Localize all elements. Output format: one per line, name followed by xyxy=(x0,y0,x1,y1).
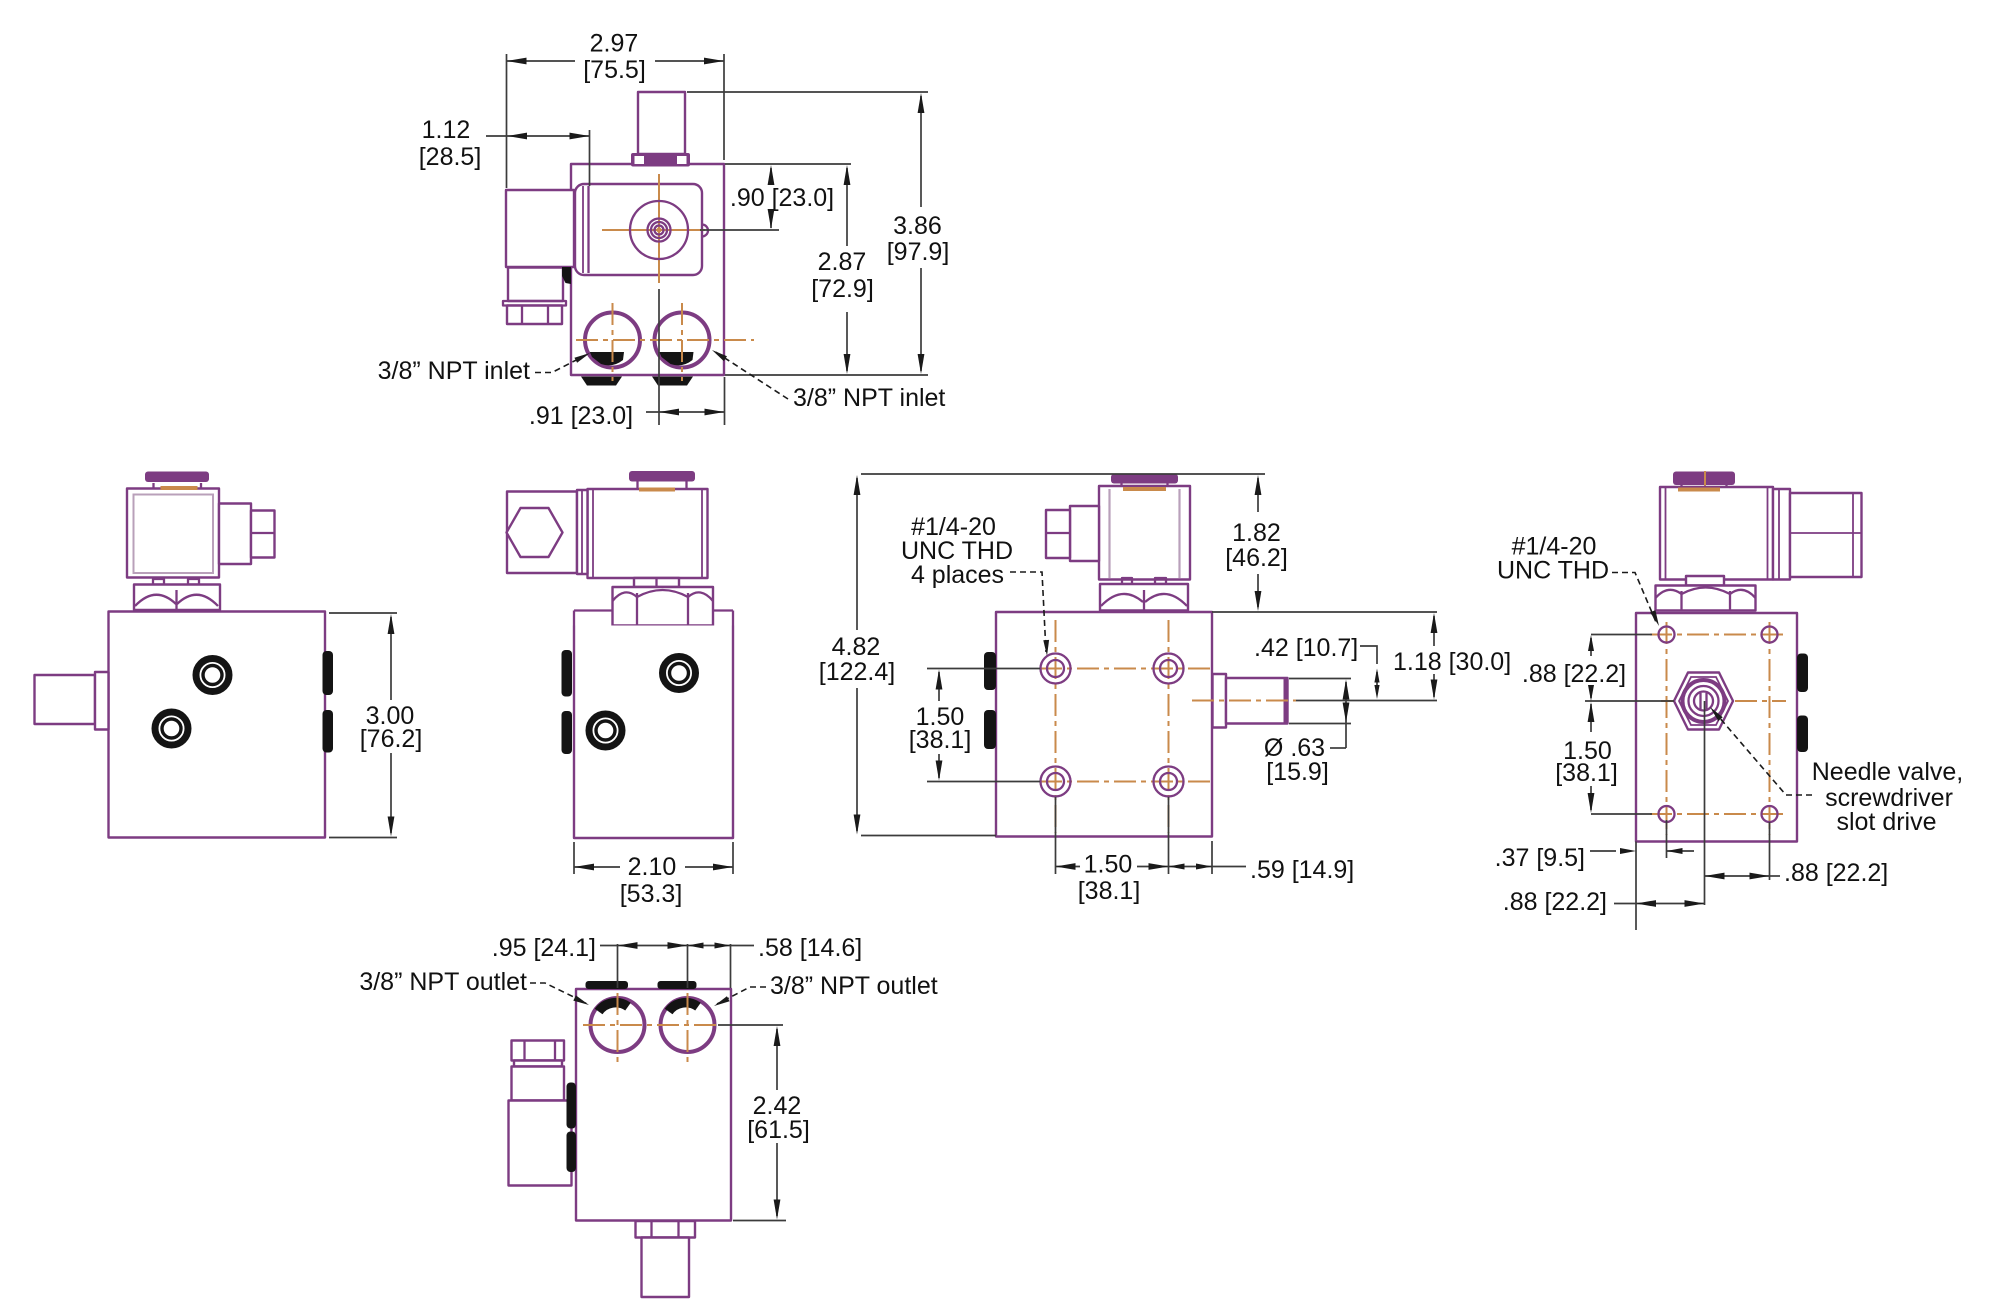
dimension 3.00 [76.2] xyxy=(329,613,422,838)
hole centerline middle (needle) xyxy=(1661,700,1786,702)
hex gland xyxy=(507,508,563,557)
dimension .95 [24.1] xyxy=(492,934,688,988)
needle valve barrel xyxy=(1226,678,1288,724)
left side view xyxy=(35,472,334,838)
top view: valve body seen from top xyxy=(503,92,754,386)
coil body xyxy=(588,489,708,578)
svg-text:3.86: 3.86 xyxy=(893,212,942,240)
thread crest right above body xyxy=(658,981,697,989)
coil cap xyxy=(629,471,695,482)
mounting tab upper xyxy=(567,1083,577,1129)
body outline xyxy=(576,989,731,1221)
dimension .58 [14.6] xyxy=(688,934,863,988)
svg-text:[28.5]: [28.5] xyxy=(419,143,482,171)
coil left edge band xyxy=(582,186,584,273)
svg-text:3/8” NPT outlet: 3/8” NPT outlet xyxy=(770,972,938,1000)
thread segment right xyxy=(659,352,693,365)
coil body xyxy=(1660,487,1773,580)
lower port ring xyxy=(155,712,188,745)
label #1/4-20 UNC THD xyxy=(1497,533,1659,627)
svg-text:[75.5]: [75.5] xyxy=(583,56,646,84)
right side view xyxy=(1636,471,1862,842)
hole bottom-right xyxy=(1762,806,1778,822)
label #1/4-20 UNC THD 4 places xyxy=(901,513,1049,656)
mounting tab upper xyxy=(1797,654,1808,693)
dimension 1.18 [30.0] xyxy=(1212,612,1511,701)
black wedge at connector/body joint xyxy=(562,267,571,284)
dimension .91 [23.0] xyxy=(529,289,725,430)
svg-text:[72.9]: [72.9] xyxy=(811,275,874,303)
label 3/8 NPT outlet left xyxy=(359,968,589,1005)
mounting tab lower xyxy=(984,710,996,749)
needle valve collar xyxy=(1213,674,1227,728)
body outline xyxy=(109,612,326,838)
dimension .88 [22.2] upper xyxy=(1522,635,1674,702)
inlet centerline horizontal xyxy=(576,339,754,341)
mounting tab lower xyxy=(562,711,573,754)
DIN connector side xyxy=(219,504,251,565)
dimension dia .63 [15.9] xyxy=(1264,679,1351,787)
solenoid stem xyxy=(642,1238,690,1298)
coil nut xyxy=(1656,586,1756,611)
coil nut xyxy=(1122,578,1132,584)
DIN gland body xyxy=(512,1067,565,1101)
DIN connector xyxy=(1070,506,1099,561)
label 3/8 NPT inlet right xyxy=(712,350,945,412)
body outline xyxy=(996,612,1212,837)
dimension 3.86 [97.9] xyxy=(687,92,949,375)
stem nut xyxy=(631,153,690,167)
hole centerline vertical left xyxy=(1666,622,1668,835)
mounting hole bottom-right xyxy=(1154,767,1184,797)
svg-text:[15.9]: [15.9] xyxy=(1266,758,1329,786)
svg-text:1.50: 1.50 xyxy=(1084,851,1133,879)
needle valve hex xyxy=(1674,673,1733,730)
mounting tab lower xyxy=(1797,716,1808,753)
svg-text:.58 [14.6]: .58 [14.6] xyxy=(758,934,862,962)
label 3/8 NPT outlet right xyxy=(714,972,938,1006)
svg-text:2.87: 2.87 xyxy=(818,248,867,276)
hole centerline bottom xyxy=(1040,781,1212,783)
needle valve centerline xyxy=(1192,700,1296,702)
mounting tab lower xyxy=(567,1132,577,1173)
outlet circle right xyxy=(661,998,715,1052)
dimension 2.97 [75.5] xyxy=(507,30,725,189)
stem between coil and nut xyxy=(634,578,679,587)
svg-text:.59 [14.9]: .59 [14.9] xyxy=(1250,856,1354,884)
DIN gland flange xyxy=(514,1061,562,1067)
svg-text:UNC THD: UNC THD xyxy=(1497,557,1609,585)
svg-text:slot drive: slot drive xyxy=(1836,808,1936,836)
svg-text:4 places: 4 places xyxy=(911,561,1004,589)
svg-text:4.82: 4.82 xyxy=(832,633,881,661)
svg-text:1.82: 1.82 xyxy=(1232,519,1281,547)
svg-text:[122.4]: [122.4] xyxy=(819,658,895,686)
solenoid center rings xyxy=(630,201,688,259)
hole top-right xyxy=(1762,627,1778,643)
label 3/8 NPT inlet left xyxy=(378,353,590,385)
hole centerline top xyxy=(1040,668,1212,670)
coil cap xyxy=(145,472,209,483)
inlet centerline vertical left xyxy=(612,303,614,381)
DIN interface band xyxy=(577,490,588,574)
svg-text:[38.1]: [38.1] xyxy=(1078,877,1141,905)
dimension .59 [14.9] xyxy=(1169,841,1355,884)
body outline xyxy=(1636,613,1797,842)
inlet centerline vertical right xyxy=(681,303,683,381)
outlet centerline vertical right xyxy=(687,993,689,1063)
gland flange xyxy=(503,301,566,306)
dimension .88 [22.2] bottom-left xyxy=(1503,701,1705,916)
coil nut xyxy=(613,587,714,626)
dimension .42 [10.7] xyxy=(1254,634,1380,699)
outlet centerline horizontal xyxy=(583,1024,720,1026)
solenoid center crosshair xyxy=(602,229,705,231)
dimension .88 [22.2] bottom-right xyxy=(1705,822,1889,887)
coil centerline xyxy=(1704,471,1706,608)
coil top (rounded square) xyxy=(575,184,702,275)
dimension 2.10 [53.3] xyxy=(574,842,733,908)
dimension 4.82 [122.4] xyxy=(819,474,1265,836)
svg-text:[53.3]: [53.3] xyxy=(620,880,683,908)
hole centerline vertical left xyxy=(1055,620,1057,833)
svg-text:2.10: 2.10 xyxy=(628,853,677,881)
svg-text:[97.9]: [97.9] xyxy=(887,238,950,266)
svg-text:.88 [22.2]: .88 [22.2] xyxy=(1503,888,1607,916)
body outline xyxy=(571,164,724,375)
mounting hole top-left xyxy=(1041,654,1071,684)
mounting tab upper xyxy=(323,651,334,695)
DIN interface band xyxy=(1773,489,1790,580)
hole centerline bottom xyxy=(1650,813,1786,815)
upper port ring xyxy=(663,657,696,690)
thread crest left above body xyxy=(586,981,629,989)
svg-text:.42 [10.7]: .42 [10.7] xyxy=(1254,634,1358,662)
svg-text:[38.1]: [38.1] xyxy=(1555,759,1618,787)
DIN gland nut xyxy=(512,1041,565,1061)
DIN connector (top view) xyxy=(506,190,574,267)
thread segment left xyxy=(599,1003,628,1012)
outlet circle left xyxy=(591,998,645,1052)
svg-text:[46.2]: [46.2] xyxy=(1225,544,1288,572)
nub on coil right xyxy=(702,225,708,237)
hole bottom-left xyxy=(1659,806,1675,822)
hole centerline vertical right xyxy=(1769,622,1771,835)
upper port ring xyxy=(196,659,229,692)
coil body xyxy=(127,489,219,578)
mounting hole top-right xyxy=(1154,654,1184,684)
dimension 2.42 [61.5] xyxy=(718,1025,810,1221)
nut stubs xyxy=(153,579,164,585)
hole centerline top xyxy=(1650,634,1786,636)
svg-text:.88 [22.2]: .88 [22.2] xyxy=(1784,859,1888,887)
DIN connector xyxy=(1790,493,1862,577)
lower port ring xyxy=(589,714,622,747)
gland nut xyxy=(507,306,562,325)
svg-text:[76.2]: [76.2] xyxy=(360,725,423,753)
svg-text:3/8” NPT outlet: 3/8” NPT outlet xyxy=(359,968,527,996)
body outline xyxy=(574,626,733,839)
inlet circle left xyxy=(585,313,640,368)
mounting tab upper xyxy=(984,652,996,690)
hole top-left xyxy=(1659,627,1675,643)
inlet circle right xyxy=(655,313,710,368)
cap legs xyxy=(1680,484,1682,488)
dimension 2.87 [72.9] xyxy=(811,165,874,374)
svg-text:Needle valve,: Needle valve, xyxy=(1812,758,1963,786)
dimension 1.12 [28.5] xyxy=(419,116,590,186)
dimension 1.50 [38.1] xyxy=(1555,702,1652,814)
DIN connector rear with hex gland xyxy=(507,492,577,574)
thread segment left xyxy=(590,352,624,365)
coil cap xyxy=(1673,472,1735,486)
label needle valve xyxy=(1710,707,1963,836)
thread segment right xyxy=(669,1003,698,1012)
mounting tab lower xyxy=(323,710,334,753)
svg-text:.91 [23.0]: .91 [23.0] xyxy=(529,402,633,430)
coil cap xyxy=(1111,474,1178,484)
mounting hole bottom-left xyxy=(1041,767,1071,797)
screwdriver slot xyxy=(1699,693,1701,709)
thread crest right below body xyxy=(652,377,693,386)
svg-text:3/8” NPT inlet: 3/8” NPT inlet xyxy=(793,384,945,412)
thread crest left below body xyxy=(581,377,622,386)
svg-text:[38.1]: [38.1] xyxy=(909,726,972,754)
DIN connector box xyxy=(509,1101,572,1186)
left port collar xyxy=(95,672,109,730)
hole centerline vertical right xyxy=(1168,620,1170,833)
coil body xyxy=(1099,486,1190,580)
solenoid stem xyxy=(638,92,685,154)
bottom view xyxy=(509,981,732,1297)
svg-text:.88 [22.2]: .88 [22.2] xyxy=(1522,660,1626,688)
solenoid stem nut xyxy=(636,1221,696,1238)
mounting tab upper xyxy=(562,650,573,697)
svg-text:1.12: 1.12 xyxy=(422,116,471,144)
svg-text:2.97: 2.97 xyxy=(590,30,639,58)
svg-text:3/8” NPT inlet: 3/8” NPT inlet xyxy=(378,357,530,385)
bottom-face view with mounting holes xyxy=(984,474,1296,837)
cable gland rect xyxy=(508,268,563,302)
front view xyxy=(507,471,734,838)
left port stem xyxy=(35,675,96,724)
svg-text:[61.5]: [61.5] xyxy=(747,1116,810,1144)
dimension .90 [23.0] xyxy=(700,164,851,230)
svg-text:.95 [24.1]: .95 [24.1] xyxy=(492,934,596,962)
dimension 1.82 [46.2] xyxy=(1225,475,1288,611)
dimension 1.50 [38.1] left xyxy=(909,669,1040,782)
svg-text:.37 [9.5]: .37 [9.5] xyxy=(1495,844,1585,872)
dimension .37 [9.5] xyxy=(1495,820,1694,930)
stem between coil and nut xyxy=(1686,576,1724,586)
svg-text:.90 [23.0]: .90 [23.0] xyxy=(730,184,834,212)
coil nut xyxy=(134,585,220,611)
outlet centerline vertical left xyxy=(617,993,619,1063)
dimension 1.50 [38.1] bottom xyxy=(1056,797,1169,905)
cap legs xyxy=(636,481,638,490)
cap legs xyxy=(152,483,154,489)
svg-text:1.18 [30.0]: 1.18 [30.0] xyxy=(1393,648,1511,676)
